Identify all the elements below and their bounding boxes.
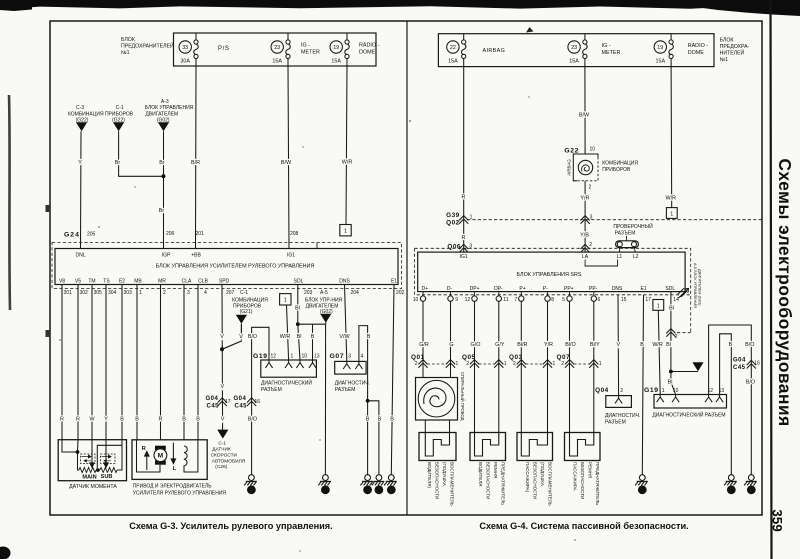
svg-text:2: 2 — [513, 361, 516, 367]
diagnostic connector Q04 — [595, 387, 640, 426]
svg-text:УСИЛИТЕЛЯ РУЛЕВОГО УПРАВЛЕНИЯ: УСИЛИТЕЛЯ РУЛЕВОГО УПРАВЛЕНИЯ — [133, 491, 227, 497]
fuse 19 15A RADIO-DOME (left) — [330, 33, 380, 66]
fuse 22 15A AIRBAG — [447, 34, 506, 67]
svg-text:TM: TM — [88, 279, 95, 285]
svg-text:V/W: V/W — [339, 334, 350, 340]
wire B : pin CLA to steering motor unit — [183, 285, 185, 440]
svg-text:359: 359 — [770, 509, 785, 532]
potentiometer dashed frames and wiper arrows — [81, 454, 96, 464]
SRS squib pin ring terminals — [413, 292, 679, 303]
svg-text:ДИАГНОСТИЧ.: ДИАГНОСТИЧ. — [605, 413, 640, 419]
svg-text:Y/R: Y/R — [544, 342, 553, 348]
ground 5 — [744, 475, 757, 495]
connector G04/C45 pin 16 on B/O wire — [234, 396, 261, 410]
wire B : pin E2 to torque sensor — [121, 285, 123, 440]
svg-text:G24: G24 — [64, 232, 80, 239]
svg-text:12: 12 — [271, 354, 277, 360]
svg-text:B/W: B/W — [281, 160, 292, 166]
wire W/R : link [1] to G19 pin 1 — [280, 305, 291, 360]
svg-text:IG1: IG1 — [460, 254, 468, 260]
svg-text:G/O: G/O — [471, 342, 481, 348]
svg-text:18: 18 — [376, 488, 382, 493]
svg-text:G/Y: G/Y — [495, 342, 505, 348]
svg-text:303: 303 — [124, 290, 133, 296]
svg-text:IG -: IG - — [602, 43, 611, 49]
svg-text:ВОСПЛАМЕНИТЕЛЬ: ВОСПЛАМЕНИТЕЛЬ — [450, 462, 455, 506]
svg-text:R: R — [462, 195, 466, 201]
connector Q01 — [411, 354, 459, 368]
svg-text:C45: C45 — [733, 365, 746, 371]
svg-text:DNS: DNS — [612, 286, 623, 292]
wire B/O : G19 pin 12 to ground 5 via C45 — [709, 325, 756, 475]
wire G : SRS pin to squib circuit — [450, 301, 452, 377]
svg-text:B/O: B/O — [248, 334, 257, 340]
direction arrow L — [171, 443, 175, 464]
svg-text:15A: 15A — [448, 59, 458, 65]
svg-text:G07: G07 — [330, 353, 345, 360]
svg-text:202: 202 — [396, 290, 405, 296]
wiper arrow SUB — [104, 440, 108, 468]
svg-text:НИТЕЛЕЙ: НИТЕЛЕЙ — [720, 49, 745, 57]
svg-text:+BB: +BB — [191, 253, 201, 259]
svg-text:V: V — [616, 342, 620, 348]
power steering control unit box U1 — [55, 249, 398, 285]
svg-text:PP-: PP- — [589, 286, 598, 292]
ground 13 — [360, 475, 373, 495]
ground 14 — [724, 475, 737, 495]
svg-text:3: 3 — [348, 354, 351, 360]
svg-text:1: 1 — [344, 229, 347, 235]
sidebar rule line — [771, 0, 772, 559]
diagnostic connector G19 (left) — [253, 353, 320, 393]
svg-text:ДВИГАТЕЛЕМ (G02): ДВИГАТЕЛЕМ (G02) — [698, 269, 703, 306]
svg-text:23: 23 — [571, 45, 577, 51]
svg-text:B/O: B/O — [248, 417, 257, 423]
svg-text:13: 13 — [314, 354, 320, 360]
svg-text:БЛОК УПРАВЛЕНИЯ УСИЛИТЕЛЕМ РУЛ: БЛОК УПРАВЛЕНИЯ УСИЛИТЕЛЕМ РУЛЕВОГО УПРА… — [156, 264, 315, 270]
wire B : G07 pin 4 to grounds — [359, 326, 382, 475]
svg-text:B/O: B/O — [745, 342, 754, 348]
connector Q05 — [462, 354, 507, 368]
connector Q07 — [557, 354, 602, 368]
svg-text:DP-: DP- — [494, 286, 503, 292]
svg-text:R: R — [159, 417, 163, 423]
node: SDL junction bus — [296, 322, 326, 326]
wire Bl : SRS pin SDL down — [666, 292, 678, 372]
wire Br : C-1 down and right to junction — [115, 131, 164, 176]
svg-text:РАЗЪЕМ: РАЗЪЕМ — [335, 387, 356, 393]
ground 17 — [384, 475, 397, 495]
link symbol [1] top left schema — [340, 225, 351, 236]
SRS control unit box U2 — [418, 252, 685, 292]
pin tick unnamed — [316, 243, 318, 249]
svg-text:Bl: Bl — [669, 306, 674, 312]
svg-text:V8: V8 — [59, 279, 65, 285]
squib passenger airbag — [517, 433, 553, 506]
svg-text:305: 305 — [94, 290, 103, 296]
wire W : pin TM to torque sensor — [91, 285, 93, 440]
svg-text:1: 1 — [599, 361, 602, 367]
svg-text:V: V — [220, 334, 224, 340]
svg-text:23: 23 — [274, 45, 280, 51]
diagnostic connector G07 — [330, 353, 371, 393]
svg-text:G04: G04 — [733, 358, 746, 364]
svg-text:БЛОК: БЛОК — [121, 37, 135, 43]
svg-text:2: 2 — [250, 488, 253, 493]
svg-text:METER: METER — [301, 50, 320, 56]
wire R : pin V5 to torque sensor — [77, 285, 79, 440]
svg-text:СКОРОСТИ: СКОРОСТИ — [211, 452, 238, 458]
svg-text:ДВИГАТЕЛЕМ: ДВИГАТЕЛЕМ — [145, 111, 178, 117]
svg-text:D-: D- — [447, 286, 453, 292]
svg-text:C-1: C-1 — [240, 290, 248, 296]
svg-text:DP+: DP+ — [470, 286, 480, 292]
wire B/O : G19 pin 12 to ground 2 — [248, 327, 269, 474]
svg-text:ПРЕДОХРА-: ПРЕДОХРА- — [720, 44, 750, 50]
squib driver airbag — [419, 433, 456, 506]
svg-text:13: 13 — [323, 488, 329, 493]
scan speckles — [59, 96, 576, 552]
svg-text:ПРИВОД И ЭЛЕКТРОДВИГАТЕЛЬ: ПРИВОД И ЭЛЕКТРОДВИГАТЕЛЬ — [133, 484, 213, 490]
svg-text:АВТОМОБИЛЯ: АВТОМОБИЛЯ — [212, 458, 246, 464]
svg-text:R: R — [142, 446, 146, 452]
svg-text:IG1: IG1 — [287, 253, 295, 259]
scan artifact: small mark above right fuse box — [526, 27, 534, 33]
wire G/Y : SRS pin to squib circuit — [498, 301, 500, 432]
svg-text:203: 203 — [304, 290, 313, 296]
svg-text:ПРЕДНАТЯЖИТЕЛЬ: ПРЕДНАТЯЖИТЕЛЬ — [501, 462, 506, 505]
svg-text:33: 33 — [182, 45, 188, 51]
svg-text:8: 8 — [551, 297, 554, 303]
svg-text:(ПОДУШКА: (ПОДУШКА — [540, 462, 545, 486]
svg-text:10: 10 — [590, 147, 596, 153]
svg-text:Схема G-4. Система пассивной б: Схема G-4. Система пассивной безопасност… — [479, 521, 688, 531]
SRS internal LA-L1 link — [585, 260, 618, 267]
fuse 33 30A P/S — [179, 33, 229, 66]
scan artifact: frame ticks — [46, 205, 51, 212]
svg-text:Br: Br — [159, 208, 165, 214]
fuse 19 15A RADIO-DOME (right) — [654, 34, 708, 67]
scan artifact: top page edge bar — [0, 0, 800, 16]
svg-text:SUB: SUB — [101, 474, 113, 480]
svg-text:17: 17 — [645, 297, 651, 303]
svg-text:C-3: C-3 — [76, 105, 84, 111]
svg-text:RADIO -: RADIO - — [359, 43, 380, 49]
svg-text:C45: C45 — [207, 404, 220, 410]
connector Q06 pin 3 — [447, 244, 472, 253]
G22 cluster AIRBAG warning lamp — [564, 147, 638, 191]
corner continuation arrow — [678, 288, 689, 298]
wire R : pin MR to steering motor unit — [160, 285, 162, 440]
svg-text:G: G — [449, 342, 453, 348]
svg-text:Q04: Q04 — [595, 387, 609, 394]
svg-text:10: 10 — [413, 297, 419, 303]
svg-text:LA: LA — [582, 254, 589, 260]
svg-text:IG -: IG - — [301, 43, 310, 49]
svg-text:Br: Br — [159, 160, 165, 166]
link symbol [1] lower right schema — [653, 300, 664, 311]
svg-text:13: 13 — [365, 488, 371, 493]
svg-text:C45: C45 — [235, 404, 248, 410]
svg-text:V: V — [239, 334, 243, 340]
svg-text:AIRBAG: AIRBAG — [567, 159, 572, 176]
svg-text:Bl: Bl — [297, 334, 302, 340]
svg-text:15A: 15A — [272, 59, 282, 65]
connector C-3 instrument cluster (G22) — [68, 105, 134, 131]
svg-text:15A: 15A — [569, 59, 579, 65]
svg-text:1: 1 — [504, 361, 507, 367]
svg-text:Y/B: Y/B — [580, 233, 589, 239]
svg-text:2: 2 — [589, 185, 592, 191]
wire B : pin CLB to steering motor unit — [197, 285, 199, 440]
wire B/W : IG-METER fuse to cluster lamp — [579, 67, 590, 154]
wire B : G19 pin 13 to ground 14 — [720, 334, 733, 475]
junction Br wires — [162, 174, 166, 178]
svg-text:W/R: W/R — [666, 195, 677, 201]
svg-text:C-1: C-1 — [218, 440, 226, 446]
wire W/R : link [1] to G19 pin 1 — [652, 310, 663, 394]
svg-text:22: 22 — [450, 45, 456, 51]
svg-text:B: B — [390, 417, 394, 423]
svg-text:ВОДИТЕЛЯ: ВОДИТЕЛЯ — [478, 462, 483, 487]
wire W/R : RADIO fuse to link [1] — [666, 67, 677, 208]
svg-text:9: 9 — [455, 297, 458, 303]
svg-text:СПИРАЛЬНЫЙ ПРОВОД: СПИРАЛЬНЫЙ ПРОВОД — [460, 372, 465, 421]
svg-text:Bl: Bl — [295, 306, 300, 312]
svg-text:G19: G19 — [644, 387, 659, 394]
svg-text:Схемы электрооборудования: Схемы электрооборудования — [775, 158, 795, 426]
control unit dashed connector outline — [52, 243, 402, 289]
motor M1 with brushes — [137, 440, 161, 472]
diagnostic connector G19 (right) — [644, 387, 727, 419]
svg-text:1: 1 — [456, 361, 459, 367]
svg-text:ВОДИТЕЛЯ): ВОДИТЕЛЯ) — [427, 462, 432, 488]
svg-text:№1: №1 — [121, 50, 130, 56]
svg-text:23: 23 — [640, 488, 646, 493]
svg-text:16: 16 — [754, 361, 760, 367]
connector G39/Q02 crossing, pin 1 — [446, 212, 472, 227]
wire B : junction to G19 pin 13 — [311, 324, 315, 360]
svg-text:B: B — [182, 417, 186, 423]
wire Bl : junction to G19 pin 10 — [668, 372, 676, 395]
wire V : SRS pin DNS to Q04 — [616, 295, 620, 396]
svg-text:ПРЕДНАТЯЖИТЕЛЬ: ПРЕДНАТЯЖИТЕЛЬ — [595, 462, 600, 505]
svg-text:W/R: W/R — [342, 160, 353, 166]
svg-text:ДИАГНОСТИЧ.: ДИАГНОСТИЧ. — [335, 381, 370, 387]
svg-text:B/R: B/R — [191, 160, 200, 166]
link symbol [1] lower left schema — [280, 294, 291, 305]
svg-text:V5: V5 — [75, 279, 81, 285]
wire B : pin E1 to ground — [390, 285, 394, 475]
svg-text:207: 207 — [226, 290, 235, 296]
svg-text:W/R: W/R — [652, 342, 663, 348]
svg-text:6: 6 — [598, 297, 601, 303]
svg-text:RADIO -: RADIO - — [688, 43, 709, 49]
svg-text:D+: D+ — [422, 286, 429, 292]
wiper arrow MAIN — [90, 440, 94, 468]
steering motor unit box — [132, 440, 207, 480]
svg-text:БЕЗОПАСНОСТИ: БЕЗОПАСНОСТИ — [486, 462, 491, 499]
svg-text:15A: 15A — [656, 59, 666, 65]
svg-text:15: 15 — [621, 297, 627, 303]
bottom pin names row — [59, 279, 397, 285]
svg-text:206: 206 — [166, 231, 175, 237]
svg-text:30A: 30A — [180, 59, 190, 65]
wire Y/R : lamp to harness line — [580, 181, 592, 253]
svg-text:1: 1 — [657, 303, 660, 309]
svg-text:301: 301 — [64, 290, 73, 296]
svg-text:TS: TS — [103, 279, 110, 285]
svg-text:14: 14 — [673, 297, 679, 303]
wire Y : pin TS to torque sensor — [105, 285, 107, 440]
ground 18 — [372, 475, 385, 495]
wire B/R : fuse P/S to pin +BB — [191, 66, 200, 249]
svg-text:G/R: G/R — [419, 342, 429, 348]
svg-text:ПРЕДОХРАНИТЕЛЕЙ: ПРЕДОХРАНИТЕЛЕЙ — [121, 42, 174, 50]
wire Bl/R : SRS pin to squib circuit — [520, 301, 522, 432]
svg-text:19: 19 — [657, 45, 663, 51]
fuse 23 15A IG-METER (left) — [271, 33, 320, 66]
svg-text:Y: Y — [104, 417, 108, 423]
vehicle speed sensor C-1 (C26) — [211, 430, 246, 470]
link symbol [1] top right schema — [666, 208, 677, 219]
motor unit label — [133, 484, 227, 497]
connector G04/C45 pin 17 on SPD wire — [206, 396, 231, 410]
svg-text:2: 2 — [163, 290, 166, 296]
svg-text:ДИАГНОСТИЧЕСКИЙ РАЗЪЕМ: ДИАГНОСТИЧЕСКИЙ РАЗЪЕМ — [652, 411, 725, 419]
svg-text:W/R: W/R — [280, 334, 291, 340]
svg-text:(ПОДУШКА: (ПОДУШКА — [442, 462, 447, 486]
svg-text:G22: G22 — [564, 148, 579, 155]
svg-text:E2: E2 — [119, 279, 125, 285]
svg-text:ПАССАЖИРА): ПАССАЖИРА) — [525, 462, 530, 493]
svg-text:2: 2 — [675, 334, 678, 340]
svg-text:DNS: DNS — [339, 279, 350, 285]
SRS control unit dashed connector outline — [415, 248, 691, 332]
svg-text:E1: E1 — [391, 279, 397, 285]
diagram outer frame — [50, 21, 762, 515]
svg-text:B/O: B/O — [746, 380, 755, 386]
connector A-5 engine ECU (G02) at SDL — [305, 298, 343, 323]
svg-text:12: 12 — [465, 297, 471, 303]
svg-text:SDL: SDL — [665, 286, 675, 292]
svg-text:ПАССАЖИРА: ПАССАЖИРА — [573, 462, 578, 491]
inductor L1 coil — [184, 446, 188, 466]
svg-text:4: 4 — [361, 354, 364, 360]
wire Bl : pin SDL down — [295, 285, 300, 325]
wire Y/R : SRS pin to squib circuit — [547, 301, 549, 432]
svg-text:CLA: CLA — [182, 279, 192, 285]
svg-text:БЛОК УПРАВЛЕНИЯ: БЛОК УПРАВЛЕНИЯ — [145, 105, 194, 111]
svg-text:A-5 БЛОК УПРАВЛЕНИЯ: A-5 БЛОК УПРАВЛЕНИЯ — [693, 263, 698, 308]
svg-text:B: B — [120, 417, 124, 423]
svg-text:Y: Y — [78, 160, 82, 166]
svg-text:302: 302 — [80, 290, 89, 296]
svg-text:5: 5 — [562, 297, 565, 303]
svg-text:Bl/Y: Bl/Y — [590, 342, 600, 348]
wire : A-5 stem to ground 13 — [324, 324, 326, 474]
svg-text:G04: G04 — [206, 396, 219, 402]
svg-text:БЕЗОПАСНОСТИ: БЕЗОПАСНОСТИ — [580, 462, 585, 499]
svg-text:B: B — [640, 342, 644, 348]
svg-text:E1: E1 — [640, 286, 646, 292]
resistor MAIN — [79, 467, 96, 472]
svg-text:SDL: SDL — [294, 279, 304, 285]
svg-text:Y/R: Y/R — [580, 196, 589, 202]
svg-text:201: 201 — [196, 231, 205, 237]
wire Bl : junction to G19 pin 10 — [297, 324, 302, 360]
wire W/R : fuse RADIO-DOME to link [1] — [342, 66, 353, 225]
svg-text:DOME: DOME — [688, 50, 705, 56]
svg-text:БЛОК УПРАВЛЕНИЯ SRS: БЛОК УПРАВЛЕНИЯ SRS — [517, 272, 582, 278]
wire G/R : SRS pin to squib circuit — [422, 301, 424, 377]
fuse 23 15A IG-METER (right) — [568, 34, 621, 67]
svg-text:2: 2 — [589, 242, 592, 248]
wire R : AIRBAG fuse to SRS pin IG1 — [462, 67, 466, 253]
scan artifact: bottom-left ink spot — [0, 547, 11, 559]
svg-text:B: B — [366, 417, 370, 423]
svg-text:METER: METER — [602, 50, 621, 56]
svg-text:ДАТЧИК МОМЕНТА: ДАТЧИК МОМЕНТА — [69, 484, 117, 490]
svg-text:B: B — [729, 342, 733, 348]
svg-text:КОМБИНАЦИЯ ПРИБОРОВ: КОМБИНАЦИЯ ПРИБОРОВ — [68, 111, 134, 117]
svg-text:G39: G39 — [446, 212, 460, 219]
connector Q03 — [509, 354, 556, 368]
svg-text:БЕЗОПАСНОСТИ: БЕЗОПАСНОСТИ — [435, 462, 440, 499]
svg-text:C-1: C-1 — [116, 105, 124, 111]
svg-text:L: L — [173, 466, 177, 472]
svg-text:AIRBAG: AIRBAG — [483, 48, 506, 54]
wire B/W : fuse IG-METER to pin IG1 — [281, 66, 292, 249]
wire V : pin SPD to vehicle speed sensor — [220, 285, 225, 433]
connector C-1 cluster (G21) branch 207 — [222, 298, 268, 350]
svg-text:B: B — [311, 334, 315, 340]
svg-text:SPD: SPD — [219, 279, 230, 285]
svg-text:3: 3 — [590, 215, 593, 221]
svg-text:208: 208 — [290, 231, 299, 237]
svg-text:Bl/O: Bl/O — [565, 342, 575, 348]
svg-text:P+: P+ — [519, 286, 525, 292]
svg-text:1: 1 — [284, 298, 287, 304]
svg-text:MAIN: MAIN — [82, 475, 96, 481]
torque sensor internals: potentiometers MAIN and SUB — [62, 440, 79, 470]
svg-text:M: M — [158, 453, 164, 460]
svg-text:G19: G19 — [253, 353, 268, 360]
svg-text:1: 1 — [139, 290, 142, 296]
svg-text:ПРОВЕРОЧНЫЙ: ПРОВЕРОЧНЫЙ — [613, 222, 653, 230]
svg-text:2: 2 — [620, 388, 623, 394]
junction SPD / cluster — [220, 347, 224, 351]
svg-text:DNL: DNL — [75, 253, 85, 259]
ground 13 — [318, 475, 331, 495]
svg-text:(C26): (C26) — [215, 464, 227, 470]
wire G/O : SRS pin to squib circuit — [474, 301, 476, 432]
svg-text:R: R — [60, 417, 64, 423]
wire B : SRS pin E1 to ground 23 — [640, 295, 644, 475]
svg-text:A-5: A-5 — [320, 290, 328, 296]
svg-text:14: 14 — [729, 488, 735, 493]
svg-text:CLB: CLB — [198, 279, 208, 285]
wire B : pin MB to steering motor unit — [136, 285, 138, 440]
wire Bl/Y : SRS pin to squib circuit — [593, 301, 595, 432]
wire V/W : pin DNS to G07 pin 3 — [339, 285, 350, 362]
connector C-1 instrument cluster (G22) — [112, 105, 125, 131]
svg-text:Br: Br — [115, 160, 121, 166]
divider between schema G-3 and G-4 — [406, 21, 408, 515]
SRS bottom pin names — [422, 286, 676, 292]
svg-text:РЕМНЯ: РЕМНЯ — [588, 462, 593, 478]
svg-text:10: 10 — [673, 388, 679, 394]
